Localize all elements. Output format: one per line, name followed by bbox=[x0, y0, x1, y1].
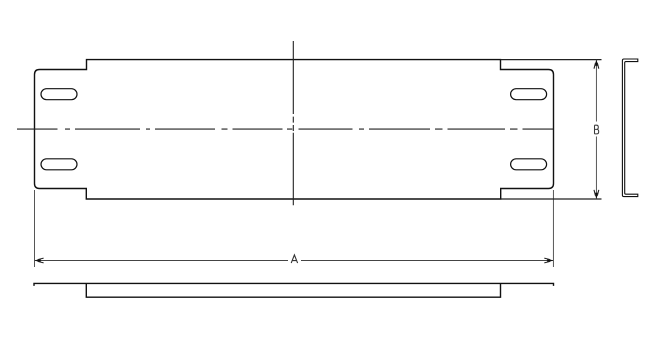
slot top-left bbox=[41, 89, 77, 100]
vertical centerline bbox=[292, 41, 294, 205]
dimension A arrow right bbox=[544, 258, 553, 263]
dimension B extension line bottom bbox=[501, 198, 602, 200]
dimension B extension line top bbox=[501, 59, 602, 61]
label A bbox=[291, 255, 297, 263]
dimension A extension line left bbox=[34, 190, 36, 267]
dimension B arrow top bbox=[594, 60, 599, 69]
dimension B line bbox=[595, 60, 597, 199]
label B bbox=[595, 125, 599, 134]
bottom view recessed edge bbox=[86, 283, 500, 297]
slot bottom-left bbox=[41, 159, 77, 170]
dimension A arrow left bbox=[35, 258, 44, 263]
side view profile (right) bbox=[622, 59, 637, 197]
dimension B arrow bottom bbox=[594, 190, 599, 199]
plate outline (front view) bbox=[35, 60, 554, 199]
dimension A extension line right bbox=[552, 190, 554, 267]
slot top-right bbox=[511, 89, 547, 100]
slot bottom-right bbox=[511, 159, 547, 170]
horizontal centerline bbox=[17, 128, 554, 130]
dimension A line bbox=[35, 260, 554, 262]
bottom view top edge bbox=[34, 283, 554, 286]
